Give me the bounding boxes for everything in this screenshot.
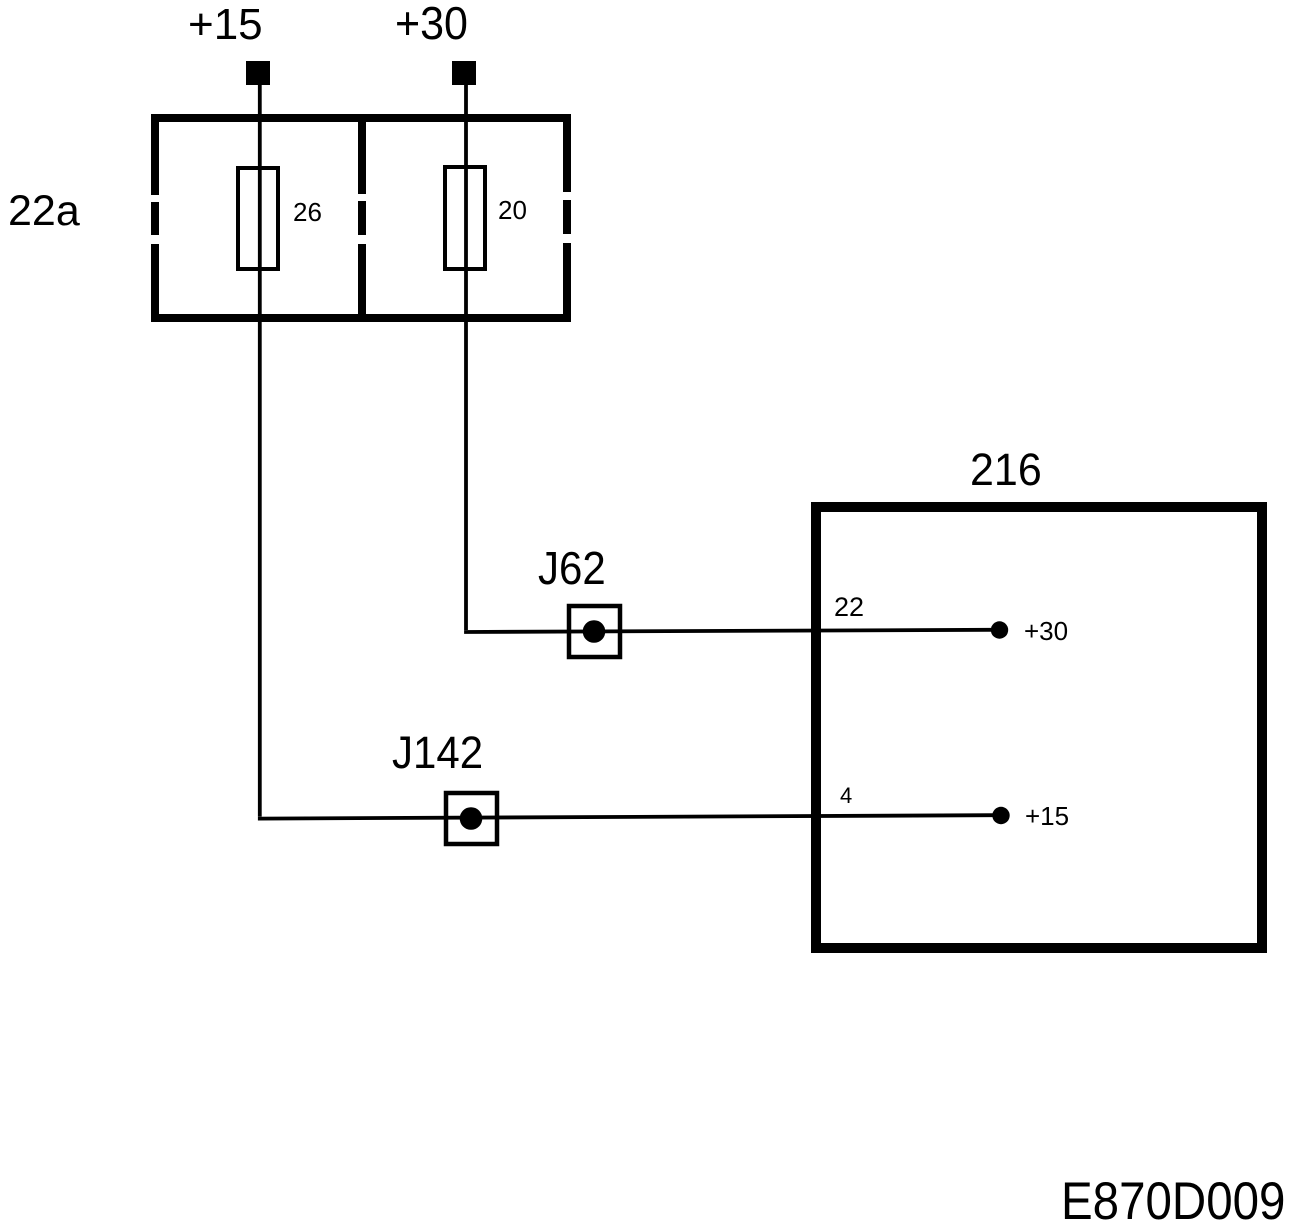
fuse box 22a left dashed edge	[151, 114, 159, 195]
svg-text:4: 4	[840, 783, 852, 808]
fuse 26 body	[238, 168, 278, 269]
pin 4 contact dot	[992, 807, 1009, 824]
fuse box 22a right dashed edge	[563, 114, 571, 192]
wire from corner through J62 to pin 22 of 216	[464, 630, 991, 632]
svg-text:J142: J142	[392, 728, 483, 779]
wire from corner through J142 to pin 4 of 216	[258, 815, 993, 818]
fuse 20 body	[445, 167, 485, 269]
svg-text:20: 20	[498, 195, 527, 225]
svg-text:+15: +15	[1025, 801, 1069, 831]
box 216 outline	[816, 507, 1262, 948]
svg-text:26: 26	[293, 197, 322, 227]
connector J62 contact dot	[583, 620, 606, 643]
fuse box 22a outline top bar	[151, 114, 571, 122]
pin 22 contact dot	[991, 621, 1008, 638]
svg-text:22a: 22a	[8, 187, 80, 235]
connector J62 square	[569, 606, 620, 657]
svg-text:E870D009: E870D009	[1061, 1170, 1285, 1230]
svg-text:+30: +30	[395, 0, 468, 49]
svg-text:J62: J62	[538, 543, 606, 594]
svg-text:22: 22	[834, 592, 864, 622]
svg-text:+15: +15	[188, 0, 263, 49]
terminal square +15	[246, 61, 270, 85]
connector J142 square	[446, 793, 497, 844]
terminal square +30	[452, 61, 476, 85]
fuse box 22a outline bottom bar	[151, 314, 571, 322]
wire from +15 terminal through fuse 26 down to J142 level	[258, 85, 262, 817]
svg-text:+30: +30	[1024, 616, 1068, 646]
fuse box 22a middle dashed divider	[358, 114, 366, 194]
connector J142 contact dot	[460, 807, 483, 830]
svg-text:216: 216	[970, 445, 1042, 495]
wire from +30 terminal through fuse 20 down to J62 level	[464, 85, 468, 630]
